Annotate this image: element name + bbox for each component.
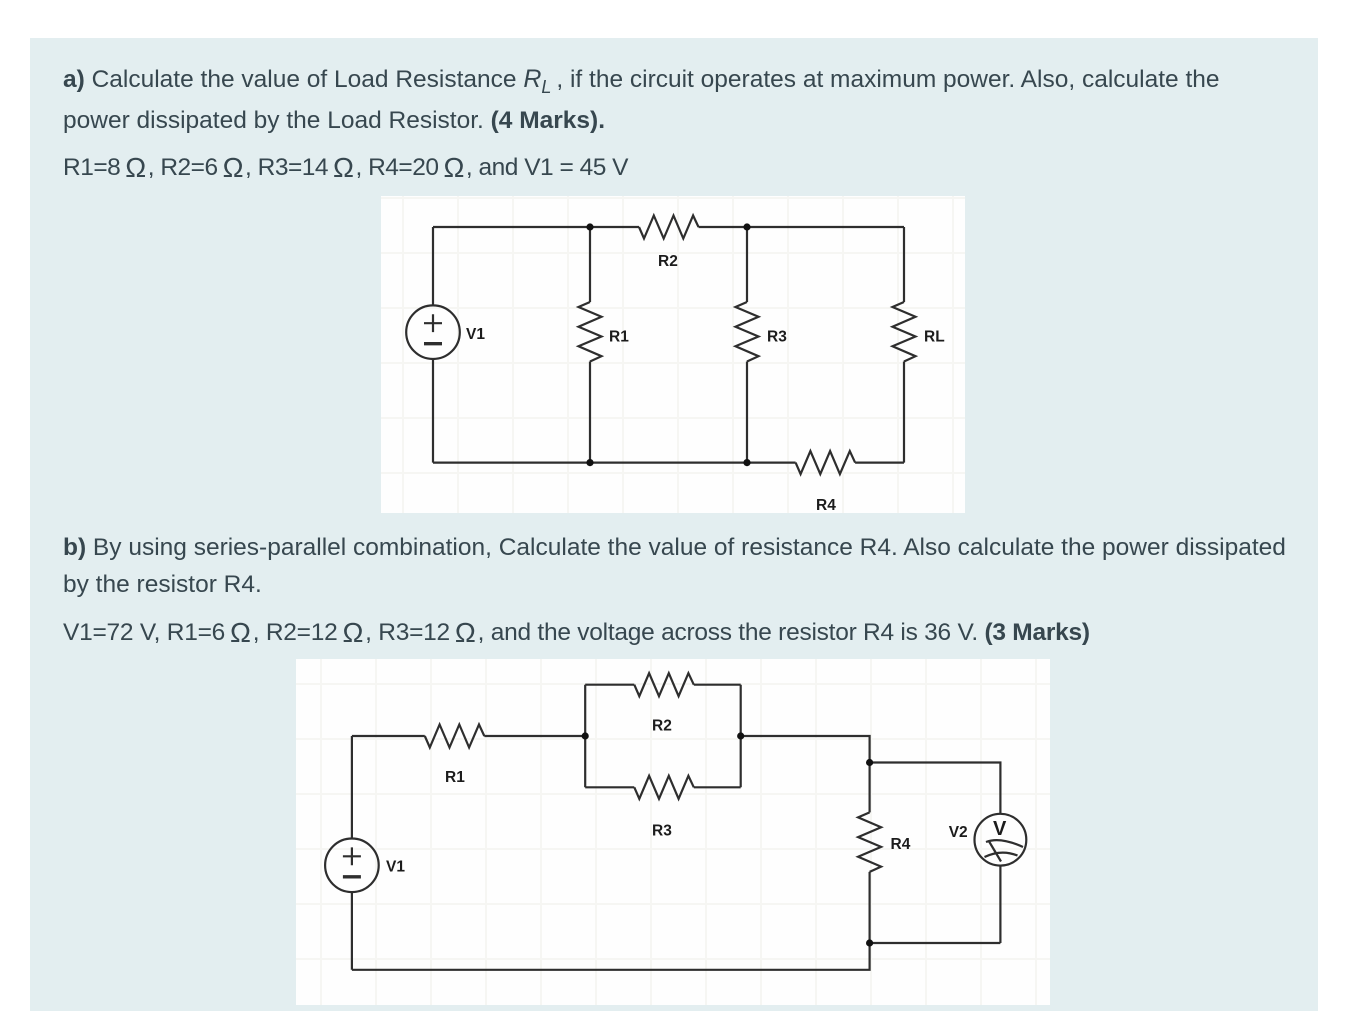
wire top right xyxy=(699,226,905,228)
resistor R1 xyxy=(425,725,485,748)
node R4 bottom xyxy=(866,939,873,946)
grid xyxy=(296,659,1050,1005)
resistor R3 xyxy=(634,776,694,799)
wire R1 branch upper xyxy=(589,227,591,302)
resistor R1 xyxy=(579,302,602,362)
svg-text:V: V xyxy=(993,818,1007,840)
node top R3 xyxy=(743,223,750,230)
box bottom right xyxy=(694,786,741,788)
resistor R4 xyxy=(796,451,856,474)
wire RL branch upper xyxy=(903,227,905,302)
node bottom R1 xyxy=(586,459,593,466)
paragraph b line 2 xyxy=(63,570,262,600)
node top R1 xyxy=(586,223,593,230)
resistor R4 xyxy=(858,812,881,872)
svg-text:R4: R4 xyxy=(816,497,836,513)
wire left upper xyxy=(351,736,353,839)
wire left upper xyxy=(432,227,434,305)
voltmeter V2 xyxy=(975,814,1027,866)
wire R1 branch lower xyxy=(589,362,591,463)
wire RL branch lower xyxy=(903,362,905,463)
svg-text:R4: R4 xyxy=(891,836,911,853)
box bottom left xyxy=(585,786,634,788)
svg-text:R2: R2 xyxy=(652,718,672,735)
paragraph a line 2 xyxy=(63,106,605,136)
box top left xyxy=(585,684,634,686)
grid xyxy=(381,196,965,513)
wire bottom right xyxy=(855,462,904,464)
wire left lower xyxy=(351,892,353,970)
wire meter loop bottom xyxy=(870,942,1001,944)
circuit b xyxy=(296,659,1050,1005)
svg-text:R1: R1 xyxy=(609,329,629,346)
paragraph a values xyxy=(63,153,628,183)
parallel box right xyxy=(740,685,742,788)
circuit a xyxy=(381,196,965,513)
svg-text:R3: R3 xyxy=(652,823,672,840)
wire to node xyxy=(484,735,585,737)
svg-text:RL: RL xyxy=(924,329,945,346)
svg-text:R3: R3 xyxy=(767,329,787,346)
svg-text:V1: V1 xyxy=(466,326,485,343)
wire R4 lower xyxy=(868,872,870,943)
voltmeter needle xyxy=(989,841,1002,862)
wire R3 branch lower xyxy=(746,362,748,463)
resistor RL xyxy=(893,302,916,362)
wire top left xyxy=(352,735,425,737)
resistor R3 xyxy=(736,302,759,362)
svg-text:V2: V2 xyxy=(949,824,968,841)
paragraph b line 1 xyxy=(63,533,1286,563)
voltage source V1 xyxy=(325,839,379,893)
paragraph a line 1 xyxy=(63,64,1220,95)
wire node to corner xyxy=(741,736,870,763)
resistor R2 xyxy=(639,216,699,239)
voltage source V1 xyxy=(406,305,460,359)
wire voltmeter bottom xyxy=(999,866,1001,943)
wire left lower xyxy=(432,359,434,463)
voltmeter scale arc xyxy=(986,840,1023,847)
wire R4 upper xyxy=(868,763,870,813)
resistor R2 xyxy=(634,673,694,696)
paragraph b values xyxy=(63,618,1090,648)
svg-text:V1: V1 xyxy=(386,859,405,876)
parallel box left xyxy=(584,685,586,788)
node R1-box xyxy=(582,732,589,739)
node R4 top xyxy=(866,759,873,766)
box top right xyxy=(694,684,741,686)
node bottom R3 xyxy=(743,459,750,466)
voltmeter lower arc xyxy=(985,853,1018,857)
wire bottom left xyxy=(433,462,796,464)
wire top xyxy=(433,226,639,228)
wire to voltmeter top xyxy=(870,763,1001,814)
svg-text:R1: R1 xyxy=(445,769,465,786)
svg-text:R2: R2 xyxy=(658,253,678,270)
wire bottom xyxy=(352,943,870,970)
node box-right xyxy=(737,732,744,739)
wire R3 branch upper xyxy=(746,227,748,302)
